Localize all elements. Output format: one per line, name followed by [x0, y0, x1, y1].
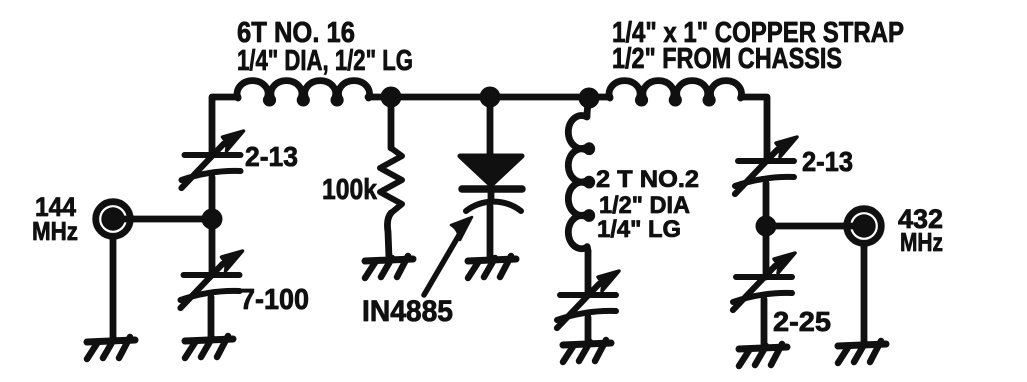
ground under C2	[185, 336, 233, 358]
capacitor C3 variable	[557, 271, 619, 328]
resistor R1 100k	[380, 97, 402, 258]
svg-text:100k: 100k	[322, 174, 378, 206]
node A junction	[202, 209, 223, 230]
node C junction	[480, 87, 501, 108]
diode D1 1N4885 varactor	[460, 97, 522, 258]
svg-text:7-100: 7-100	[240, 284, 309, 316]
wire left vertical and top-left corner	[212, 97, 238, 219]
svg-text:2-13: 2-13	[802, 146, 853, 177]
svg-text:MHz: MHz	[32, 216, 78, 246]
connector J1 144 MHz input	[96, 202, 131, 237]
node B junction	[381, 87, 402, 108]
wire J1 to node A	[124, 216, 212, 223]
ground under C3	[563, 340, 611, 362]
svg-text:2-25: 2-25	[773, 306, 831, 337]
wire node B to node C	[391, 94, 490, 101]
node E junction	[756, 216, 777, 237]
wire node E to J2	[766, 223, 856, 230]
wire L2 to right vertical	[742, 97, 767, 345]
ground under J1	[87, 337, 135, 359]
wire node A down	[211, 219, 212, 339]
ground under J2	[838, 341, 886, 363]
inductor L1 6T coil	[237, 81, 369, 103]
capacitor C1 2-13 variable	[182, 131, 244, 188]
label J2 432 MHz	[898, 204, 943, 257]
wire J1 down to ground	[110, 237, 117, 340]
svg-text:1/4" LG: 1/4" LG	[597, 216, 681, 243]
inductor L3 2T coil vertical	[568, 100, 591, 251]
node D junction	[579, 88, 600, 109]
svg-text:IN4885: IN4885	[362, 295, 453, 328]
wire J2 down to ground	[861, 244, 868, 344]
capacitor C4 2-13 variable right	[735, 137, 797, 194]
connector J2 432 MHz output	[847, 209, 882, 244]
capacitor C5 2-25 variable	[733, 253, 795, 310]
ground under R1	[365, 256, 413, 278]
wire L1 to node B	[368, 94, 391, 101]
label J1 144 MHz	[32, 192, 78, 246]
ground under D1	[468, 256, 516, 278]
arrow from label to D1	[424, 217, 472, 295]
svg-text:1/2" DIA: 1/2" DIA	[599, 192, 690, 219]
wire node D to L2	[589, 94, 610, 101]
svg-text:1/2" FROM CHASSIS: 1/2" FROM CHASSIS	[612, 43, 842, 75]
svg-text:1/4" DIA, 1/2" LG: 1/4" DIA, 1/2" LG	[237, 45, 413, 77]
svg-text:2-13: 2-13	[245, 141, 298, 172]
capacitor C2 7-100 variable	[181, 251, 243, 308]
wire L3 to C3	[585, 251, 592, 295]
inductor L2 copper strap coil	[609, 81, 741, 103]
wire node C to node D	[490, 94, 589, 101]
wire C3 to ground	[585, 317, 592, 342]
ground under C5	[739, 344, 787, 366]
svg-text:MHz: MHz	[900, 227, 943, 257]
svg-text:2 T NO.2: 2 T NO.2	[596, 166, 699, 193]
